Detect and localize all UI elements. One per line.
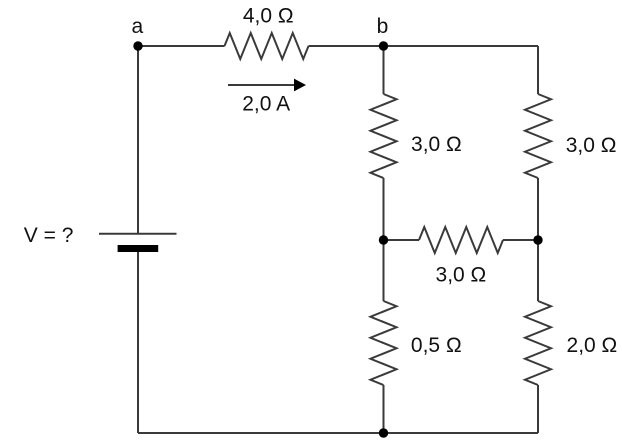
- wire bridge: middle-left junction to resistor R4: [384, 239, 420, 241]
- wire right column: middle-right junction down to resistor R6: [537, 240, 539, 301]
- svg-text:a: a: [132, 15, 144, 38]
- resistor R5 0,5 Ohm (middle vertical lower): [371, 301, 397, 385]
- node a junction dot: [133, 41, 142, 50]
- svg-text:2,0 Ω: 2,0 Ω: [567, 334, 618, 357]
- wire right column: resistor R3 to middle-right junction: [537, 178, 539, 240]
- wire left column: node a down to battery top plate: [137, 46, 139, 234]
- svg-text:2,0 A: 2,0 A: [242, 93, 290, 116]
- svg-text:3,0 Ω: 3,0 Ω: [566, 134, 617, 157]
- wire middle column: resistor R2 to middle-left junction: [383, 178, 385, 240]
- svg-text:V = ?: V = ?: [24, 224, 74, 247]
- resistor R3 3,0 Ohm (right vertical upper): [525, 94, 551, 178]
- resistor R4 3,0 Ohm (bridge horizontal): [419, 227, 503, 253]
- wire middle column: resistor R5 to bottom junction: [383, 385, 385, 433]
- battery V long plate (positive terminal): [99, 233, 177, 235]
- svg-text:4,0 Ω: 4,0 Ω: [243, 5, 294, 28]
- wire left column: battery bottom plate down to bottom wire: [137, 252, 139, 433]
- wire bridge: resistor R4 to middle-right junction: [503, 239, 538, 241]
- resistor R1 4,0 Ohm (top horizontal): [225, 33, 309, 59]
- resistor R2 3,0 Ohm (middle vertical upper): [371, 94, 397, 178]
- middle-left junction dot: [379, 235, 388, 244]
- middle-right junction dot: [533, 235, 542, 244]
- wire middle column: node b down to resistor R2: [383, 46, 385, 94]
- wire middle column: middle-left junction down to resistor R5: [383, 240, 385, 301]
- wire right column: top-right corner down to resistor R3: [537, 46, 539, 94]
- battery V short thick plate (negative terminal): [118, 245, 159, 252]
- wire top: node b to top-right corner: [384, 45, 539, 47]
- svg-text:b: b: [377, 15, 389, 38]
- svg-text:3,0 Ω: 3,0 Ω: [411, 133, 462, 156]
- bottom junction dot: [379, 428, 388, 437]
- resistor R6 2,0 Ohm (right vertical lower): [525, 301, 551, 385]
- svg-text:0,5 Ω: 0,5 Ω: [411, 334, 462, 357]
- wire top: node a to resistor R1: [138, 45, 225, 47]
- wire bottom: from battery branch to bottom-right corner: [138, 432, 538, 434]
- current arrow 2,0 A direction: [228, 79, 306, 92]
- node b junction dot: [379, 41, 388, 50]
- svg-text:3,0 Ω: 3,0 Ω: [436, 264, 487, 287]
- wire top: resistor R1 to node b: [309, 45, 384, 47]
- wire right column: resistor R6 to bottom-right corner: [537, 385, 539, 433]
